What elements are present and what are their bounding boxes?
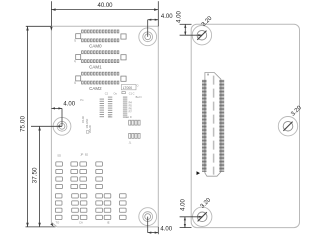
svg-text:J3: J3 [75,59,77,62]
svg-text:SD: SD [57,153,61,157]
IC U1 value box LT000 [121,85,136,90]
hole slash H5 bottom-left [198,212,207,221]
resistor bank RN1 (column of chips) [100,99,104,118]
resistor bank RN2 (column of chips) [108,97,112,118]
svg-text:J2: J2 [75,39,77,42]
dim 4.00 bottom-right: leader [147,217,149,233]
dim 75.00 bottom extension [26,226,56,228]
right board dim 4.00 bottom-left: line [184,217,186,228]
dim 75.00 top extension [26,25,52,27]
mounting hole H4 top-left (3.2mm) [192,26,211,45]
svg-text:JP: JP [80,153,83,157]
svg-text:Oo: Oo [114,92,118,95]
hole slash H6 right-middle [283,122,292,131]
dim 4.00 left-middle: line [51,107,62,109]
mounting hole H6 right-middle (3.2mm) [278,117,297,136]
svg-text:JL: JL [129,141,132,144]
svg-text:4S-40: 4S-40 [81,116,85,123]
mounting hole H3 bottom-right (3.2mm) [139,208,157,226]
svg-text:4.00: 4.00 [160,226,172,232]
camera connector J2 (CAM0) [76,30,126,42]
connector J1 pin strip right [219,80,224,172]
svg-text:4.00: 4.00 [63,102,75,108]
right board outline (bottom view, 40x75mm) [191,24,299,227]
hole slash H4 top-left [197,31,206,40]
right board dim 4.00 top-left: line [184,24,186,35]
svg-text:Ba Fr: Ba Fr [136,96,142,99]
svg-text:R7: R7 [129,111,133,114]
svg-text:Po: Po [80,99,84,102]
svg-text:IE: IE [107,220,110,224]
LED group D1-D4 row1 [129,120,140,125]
svg-text:an D: an D [126,116,131,119]
svg-text:75.00: 75.00 [19,116,26,132]
bottom LGA pad grid lower block [55,194,126,220]
dim 40.00 extension line right [157,1,159,26]
dim 4.00 top-right: leader [147,20,149,37]
dim 40.00 extension line left [50,1,52,26]
connector J5 pin column [123,97,127,118]
svg-text:37.50: 37.50 [31,167,38,183]
tiny box under ref texts [86,131,89,134]
dim 40.00 line [51,9,158,11]
dim 37.50 line [39,126,41,227]
connector key mark [207,74,209,76]
svg-text:C2: C2 [105,93,109,96]
svg-text:CA: CA [79,220,83,224]
mounting hole H5 bottom-left (3.2mm) [193,207,212,226]
svg-text:3.20: 3.20 [290,105,303,118]
svg-text:CAM0: CAM0 [89,44,102,49]
dim 75.00 line [27,26,29,227]
svg-text:CAM2: CAM2 [89,86,102,91]
connector J1 centerline [213,76,215,175]
svg-text:4.00: 4.00 [180,199,186,211]
grid labels [56,153,110,225]
svg-text:4.00: 4.00 [176,11,182,23]
mounting hole H2 left-middle (3.2mm) [53,117,71,135]
tiny texts middle cluster [80,92,142,119]
svg-text:1M-USF: 1M-USF [85,118,89,128]
corner arrow top-left [50,27,52,31]
svg-text:4.00: 4.00 [161,14,173,20]
camera connector J4 (CAM2) [76,72,126,84]
connector J1 pin strip left [202,80,207,172]
svg-text:LT000: LT000 [123,86,132,90]
connector J1 body outline [205,73,221,177]
left board outline (top view, 40x75mm) [51,26,158,227]
camera connector J3 (CAM1) [76,51,126,63]
svg-text:3.20: 3.20 [201,15,214,28]
pin 1 marker triangle [197,171,201,175]
svg-text:40.00: 40.00 [97,3,113,9]
dim 4.00 top-right: line [148,19,159,21]
bottom LGA pad grid upper block [56,162,103,189]
svg-text:CAM1: CAM1 [89,65,102,70]
small part C2 [122,92,125,94]
svg-text:B2: B2 [85,154,89,157]
mounting hole H1 top-right (3.2mm) [139,28,157,46]
right board dim 4.00 top-left: extensions [180,23,192,25]
svg-text:C1 C: C1 C [129,93,135,96]
dim 37.50 reference line to hole [31,125,62,127]
svg-text:TO: TO [56,220,60,224]
right board dim 4.00 bottom-left: extensions [180,227,192,229]
dim 4.00 bottom-right: line [148,232,159,234]
corner arrow bottom-left [50,223,54,228]
svg-text:O: O [137,84,139,87]
svg-text:J4: J4 [75,81,77,84]
LED group D5-D8 row2 [129,133,140,138]
